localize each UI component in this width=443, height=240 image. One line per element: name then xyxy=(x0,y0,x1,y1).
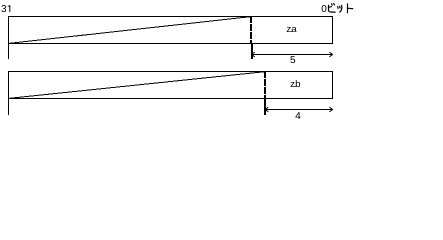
register box 2 top edge xyxy=(8,71,333,73)
extension tick below dashed separator 1 xyxy=(251,44,253,60)
register box 2 bottom edge xyxy=(8,98,333,100)
extension tick below dashed separator 2 xyxy=(264,99,266,116)
field label z.b xyxy=(291,80,300,87)
katakana ト (of 0ビット) xyxy=(348,4,353,13)
katakana ビ (of 0ビット) xyxy=(329,4,336,13)
register box 2 right edge xyxy=(332,71,334,99)
register box 1 bottom edge xyxy=(8,43,333,45)
field label z.a xyxy=(287,27,297,32)
register box 1 top edge xyxy=(8,16,333,18)
dimension arrow for z.a width (5 bits) xyxy=(252,52,333,57)
register box 2 dashed field separator (bit 4 boundary) xyxy=(264,71,266,99)
dimension arrow for z.b width (4 bits) xyxy=(265,107,333,112)
dimension value 4 xyxy=(295,112,300,119)
dimension value 5 xyxy=(290,56,295,63)
register box 1 left edge (extension line down to dimension level) xyxy=(8,16,10,59)
register box 2 diagonal break line xyxy=(9,71,268,98)
label 31 (bit 31, top-left) xyxy=(1,5,10,12)
register box 1 diagonal break line xyxy=(9,16,254,43)
katakana ッ (of 0ビット) xyxy=(338,5,342,12)
label 0 (of 0ビット, top-right) xyxy=(322,5,327,12)
register box 1 dashed field separator (bit 5 boundary) xyxy=(250,16,252,44)
register box 1 right edge xyxy=(332,16,334,44)
register box 2 left edge (extension line down to dimension level) xyxy=(8,71,10,115)
